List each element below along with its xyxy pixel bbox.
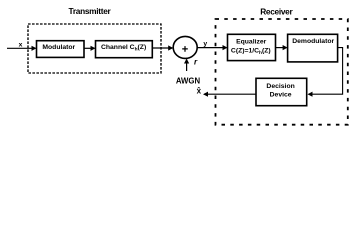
wire: input line xyxy=(7,47,36,49)
receiver dashed box xyxy=(216,19,348,125)
transmitter dashed box xyxy=(28,24,161,73)
svg-text:Receiver: Receiver xyxy=(260,7,293,17)
svg-text:Modulator: Modulator xyxy=(42,44,75,51)
block Equalizer xyxy=(228,34,276,60)
block Modulator xyxy=(37,41,85,58)
svg-text:Equalizer: Equalizer xyxy=(236,39,267,46)
block Decision Device xyxy=(256,78,307,105)
summing junction xyxy=(173,36,197,58)
wire: feedback from Demodulator down to Decision Device xyxy=(309,48,343,95)
svg-text:AWGN: AWGN xyxy=(176,76,201,85)
wire: summer to Equalizer, label y xyxy=(197,47,226,49)
svg-text:Decision: Decision xyxy=(266,83,294,90)
wire: Channel to summer xyxy=(152,47,172,49)
svg-text:Device: Device xyxy=(270,92,292,99)
wire: output from Decision Device xyxy=(204,93,256,95)
svg-text:Demodulator: Demodulator xyxy=(292,38,334,45)
svg-text:x: x xyxy=(19,41,23,48)
block Demodulator xyxy=(288,34,338,62)
wire: Equalizer to Demodulator xyxy=(276,47,287,49)
block Channel Ch(Z) xyxy=(96,41,153,58)
wire: AWGN arrow into summer xyxy=(186,60,188,72)
wire: Modulator to Channel xyxy=(84,47,95,49)
svg-text:y: y xyxy=(203,41,207,48)
svg-text:x̂: x̂ xyxy=(197,86,202,95)
svg-text:Transmitter: Transmitter xyxy=(69,6,112,16)
